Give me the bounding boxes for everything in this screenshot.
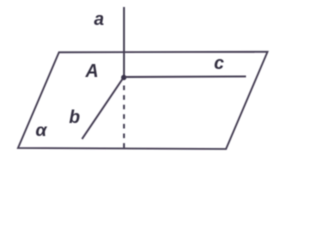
plane alpha (parallelogram) bbox=[18, 52, 268, 149]
svg-text:c: c bbox=[214, 53, 224, 73]
svg-text:α: α bbox=[36, 120, 48, 140]
svg-text:A: A bbox=[85, 61, 99, 81]
svg-text:a: a bbox=[94, 9, 104, 29]
line a (vertical, above plane) bbox=[123, 7, 125, 78]
line a hidden part (dashed) bbox=[123, 86, 125, 149]
line b (slanted in plane) bbox=[82, 79, 123, 139]
line c (horizontal) bbox=[125, 75, 246, 78]
point A (dot) bbox=[121, 75, 126, 80]
svg-text:b: b bbox=[69, 107, 80, 127]
